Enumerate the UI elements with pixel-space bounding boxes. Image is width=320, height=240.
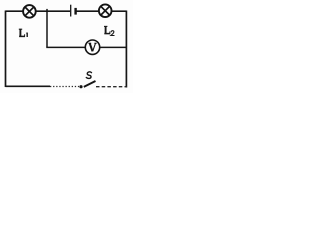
- wire: voltmeter branch horizontal left of meter: [46, 46, 85, 48]
- switch S terminal dot: [79, 85, 82, 88]
- wire: bottom left solid segment: [6, 85, 51, 87]
- wire: left vertical side: [5, 11, 7, 88]
- wire: right vertical side: [125, 11, 127, 88]
- wire: bottom right dashed segment: [96, 86, 127, 88]
- lamp L2: [99, 4, 112, 17]
- label L1: [19, 29, 27, 37]
- wire: top between L1 and battery: [36, 10, 70, 12]
- voltmeter U1: [85, 40, 99, 54]
- wire: voltmeter branch horizontal right of meter: [100, 46, 126, 48]
- node: junction of voltmeter branch on top wire: [46, 9, 48, 11]
- wire: top-left from corner to lamp L1: [6, 10, 24, 12]
- label L2: [104, 26, 115, 35]
- battery cell: short thick plate (right): [74, 8, 76, 15]
- switch S blade: [84, 81, 96, 87]
- label S: [86, 72, 91, 79]
- wire: voltmeter branch left vertical: [46, 11, 48, 47]
- battery cell: long plate (left): [70, 5, 72, 17]
- lamp L1: [23, 5, 36, 18]
- wire: top between battery and L2: [77, 10, 100, 12]
- wire: bottom dotted segment to switch: [50, 86, 79, 88]
- wire: top-right from L2 to corner: [112, 10, 127, 12]
